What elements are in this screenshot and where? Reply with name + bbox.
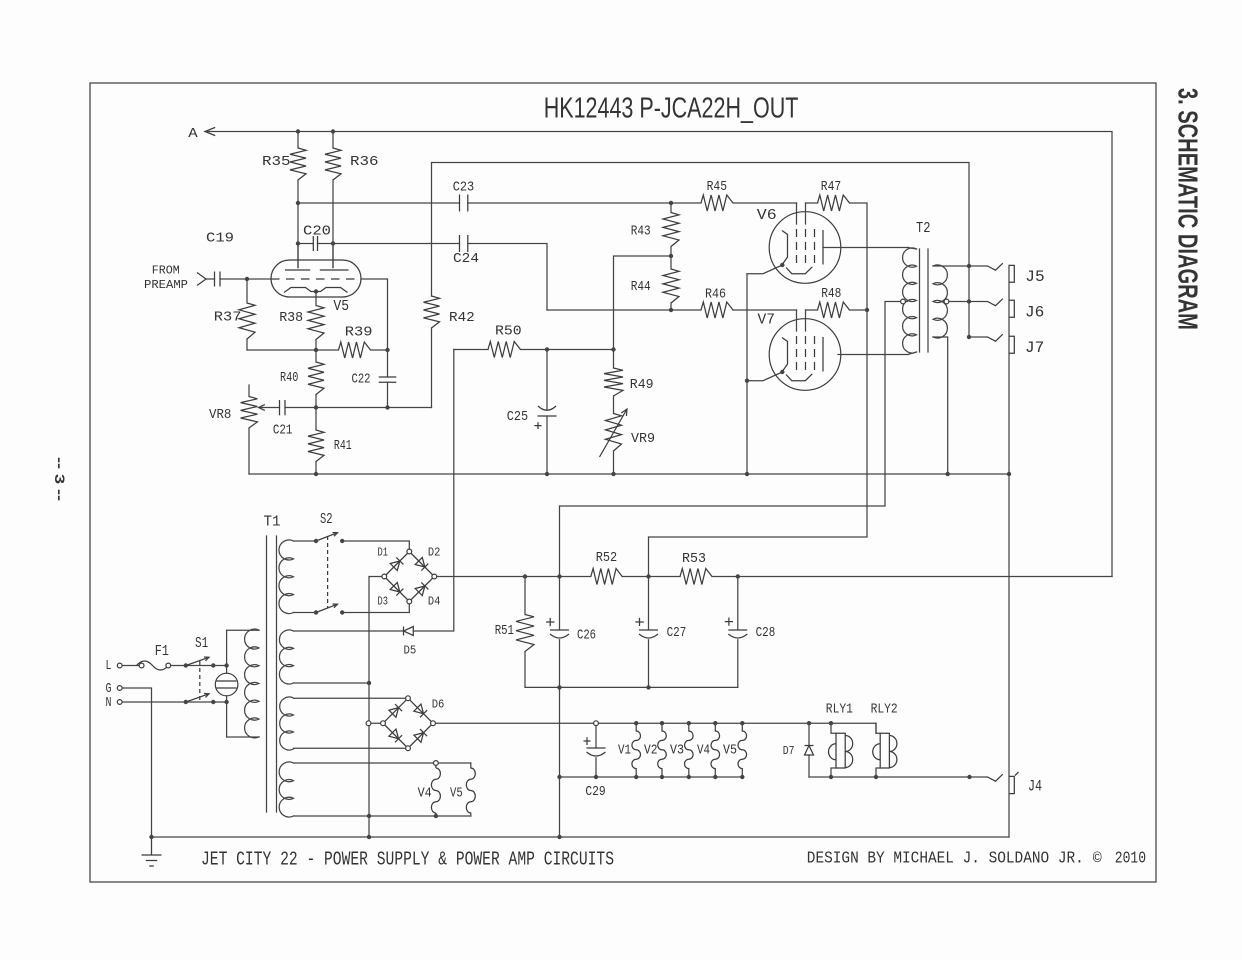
svg-text:R40: R40 [280,371,298,386]
svg-text:PREAMP: PREAMP [144,278,188,292]
svg-text:R47: R47 [821,180,841,195]
svg-text:N: N [106,696,112,711]
svg-text:C20: C20 [303,225,331,240]
svg-text:S2: S2 [320,511,333,528]
svg-text:2010: 2010 [1115,850,1146,869]
svg-text:V4: V4 [418,787,432,802]
svg-text:©: © [1093,851,1102,868]
svg-text:T2: T2 [916,220,931,237]
svg-text:C21: C21 [273,424,293,439]
svg-text:C23: C23 [453,181,475,196]
svg-text:J5: J5 [1025,268,1044,286]
svg-text:S1: S1 [195,635,208,652]
svg-text:R45: R45 [707,180,728,195]
svg-text:J7: J7 [1025,339,1044,357]
svg-text:R35: R35 [262,155,291,170]
svg-text:C25: C25 [507,410,528,425]
svg-text:A: A [188,126,198,142]
svg-text:V1: V1 [618,744,631,759]
svg-text:V2: V2 [644,744,658,759]
svg-text:3. SCHEMATIC DIAGRAM: 3. SCHEMATIC DIAGRAM [1173,88,1204,330]
svg-text:R42: R42 [449,311,475,326]
svg-text:D4: D4 [428,595,441,609]
svg-text:V6: V6 [757,207,777,224]
svg-text:C26: C26 [577,629,596,644]
svg-text:D6: D6 [432,698,445,712]
svg-text:R37: R37 [214,311,242,326]
svg-text:D2: D2 [428,546,441,560]
svg-text:L: L [106,659,112,674]
svg-text:R51: R51 [495,624,514,639]
svg-text:DESIGN BY MICHAEL J. SOLDANO J: DESIGN BY MICHAEL J. SOLDANO JR. [807,850,1084,869]
svg-text:D3: D3 [378,595,389,609]
svg-text:R36: R36 [350,155,379,170]
svg-text:R41: R41 [334,439,352,454]
svg-text:C24: C24 [453,252,479,267]
svg-text:VR8: VR8 [209,408,231,423]
svg-text:R46: R46 [705,288,726,303]
svg-text:RLY1: RLY1 [826,703,853,718]
svg-text:JET CITY 22 - POWER SUPPLY & P: JET CITY 22 - POWER SUPPLY & POWER AMP C… [201,849,614,871]
svg-text:HK12443 P-JCA22H_OUT: HK12443 P-JCA22H_OUT [544,92,799,124]
svg-text:R44: R44 [631,280,651,295]
svg-text:R50: R50 [495,325,522,340]
svg-text:D5: D5 [404,644,417,658]
svg-text:R48: R48 [821,287,841,302]
svg-text:D1: D1 [378,546,389,560]
svg-text:V5: V5 [333,298,349,315]
svg-text:-- 3 --: -- 3 -- [52,457,68,501]
svg-text:C29: C29 [585,785,605,800]
svg-text:T1: T1 [264,514,281,531]
svg-text:RLY2: RLY2 [871,703,898,718]
svg-text:R38: R38 [279,311,303,326]
svg-text:C19: C19 [206,232,234,247]
svg-text:R39: R39 [345,326,373,341]
svg-text:J6: J6 [1025,304,1044,322]
svg-text:F1: F1 [155,643,169,660]
svg-text:C27: C27 [667,626,687,641]
svg-text:C28: C28 [756,626,776,641]
svg-text:R52: R52 [596,551,617,566]
svg-text:V4: V4 [697,744,710,759]
svg-text:V7: V7 [758,312,776,329]
svg-text:R49: R49 [630,378,654,393]
svg-text:V5: V5 [723,744,737,759]
svg-text:V5: V5 [450,787,463,802]
svg-text:VR9: VR9 [631,432,655,447]
svg-text:J4: J4 [1028,778,1042,796]
svg-text:FROM: FROM [152,264,180,278]
svg-text:R53: R53 [682,552,706,567]
svg-text:G: G [106,682,112,697]
svg-text:C22: C22 [352,373,371,388]
svg-text:R43: R43 [631,225,651,240]
svg-text:D7: D7 [783,744,795,758]
svg-text:V3: V3 [670,744,684,759]
